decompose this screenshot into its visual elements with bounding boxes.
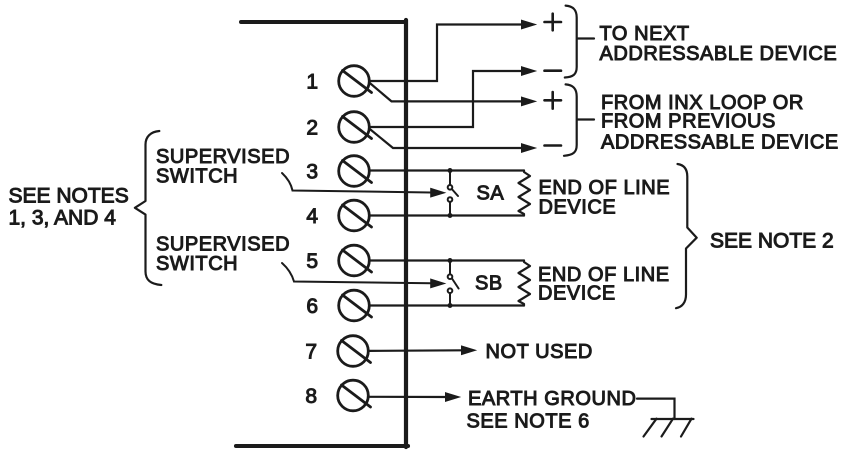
terminal 2 screw — [339, 112, 372, 143]
terminal 8 screw — [338, 380, 371, 411]
svg-text:EARTH GROUND: EARTH GROUND — [468, 388, 636, 410]
label end of line device 2 — [538, 264, 670, 304]
brace see note 2 — [676, 164, 697, 308]
polarity plus to next — [545, 14, 562, 31]
svg-text:SA: SA — [477, 183, 505, 205]
leader supervised switch 1 to SA — [282, 173, 445, 197]
junction node switch SA top — [448, 168, 453, 173]
svg-text:SEE NOTE 6: SEE NOTE 6 — [467, 410, 590, 432]
resistor end of line device 2 — [519, 261, 531, 306]
svg-text:TO NEXT: TO NEXT — [600, 23, 690, 45]
terminal 7 screw — [338, 336, 371, 367]
terminal 5 screw — [339, 245, 372, 276]
wire terminal 2 to next device minus — [370, 67, 536, 127]
wire terminal 8 earth ground — [368, 393, 459, 402]
terminal 1 screw — [339, 66, 372, 97]
wire terminal 1 from previous plus — [370, 83, 536, 106]
wire terminal 1 to next device plus — [370, 20, 536, 81]
svg-text:3: 3 — [306, 161, 318, 184]
svg-text:ADDRESSABLE DEVICE: ADDRESSABLE DEVICE — [601, 131, 839, 153]
polarity plus from previous — [545, 92, 562, 109]
svg-text:5: 5 — [306, 250, 318, 273]
svg-text:SB: SB — [475, 273, 503, 295]
svg-text:2: 2 — [306, 117, 318, 140]
label end of line device 1 — [539, 177, 671, 219]
polarity minus to next — [545, 69, 562, 72]
label to next addressable device — [600, 23, 838, 65]
junction node switch SB bottom — [448, 303, 453, 308]
terminal 3 screw — [339, 156, 372, 187]
wire earth ground to ground symbol — [637, 399, 675, 419]
svg-text:4: 4 — [306, 205, 318, 228]
wire terminal 5 to end of line device — [370, 259, 525, 261]
resistor end of line device 1 — [519, 171, 531, 216]
switch SA — [448, 171, 458, 216]
junction node switch SB top — [448, 258, 453, 263]
module outline bottom edge — [236, 444, 408, 448]
leader supervised switch 2 to SB — [282, 263, 445, 288]
brace to next device group — [565, 6, 594, 78]
label see notes 1 3 and 4 — [9, 184, 129, 229]
wire terminal 6 to end of line device — [370, 304, 525, 306]
svg-text:NOT USED: NOT USED — [486, 341, 593, 363]
junction node switch SA bottom — [448, 213, 453, 218]
svg-text:SWITCH: SWITCH — [156, 166, 238, 188]
svg-text:7: 7 — [305, 341, 317, 364]
label from inx loop or from previous addressable device — [601, 92, 839, 153]
label earth ground see note 6 — [467, 388, 637, 432]
svg-text:SEE NOTE 2: SEE NOTE 2 — [710, 230, 834, 253]
svg-text:FROM PREVIOUS: FROM PREVIOUS — [601, 110, 776, 132]
svg-text:8: 8 — [305, 385, 317, 408]
svg-text:SEE NOTES: SEE NOTES — [9, 184, 129, 207]
module outline right edge — [404, 20, 408, 447]
svg-text:DEVICE: DEVICE — [539, 197, 617, 219]
wire terminal 2 from previous minus — [370, 129, 536, 152]
wire terminal 4 to end of line device — [370, 214, 525, 216]
brace see notes group — [135, 131, 161, 285]
svg-text:DEVICE: DEVICE — [538, 282, 616, 304]
ground symbol — [644, 419, 694, 437]
svg-text:ADDRESSABLE DEVICE: ADDRESSABLE DEVICE — [600, 43, 838, 65]
polarity minus from previous — [545, 144, 562, 147]
terminal 4 screw — [339, 200, 372, 231]
terminal 6 screw — [339, 290, 372, 321]
label supervised switch 2 — [156, 233, 290, 275]
wire terminal 3 to end of line device — [370, 169, 525, 171]
svg-text:1, 3, AND 4: 1, 3, AND 4 — [9, 207, 117, 230]
switch SB — [448, 261, 459, 306]
label supervised switch 1 — [156, 146, 290, 188]
module outline top edge — [241, 20, 406, 24]
svg-text:1: 1 — [306, 71, 318, 94]
svg-text:6: 6 — [306, 295, 318, 318]
brace from previous device group — [564, 84, 594, 155]
wire terminal 7 not used — [369, 346, 476, 355]
svg-text:SWITCH: SWITCH — [156, 253, 238, 275]
